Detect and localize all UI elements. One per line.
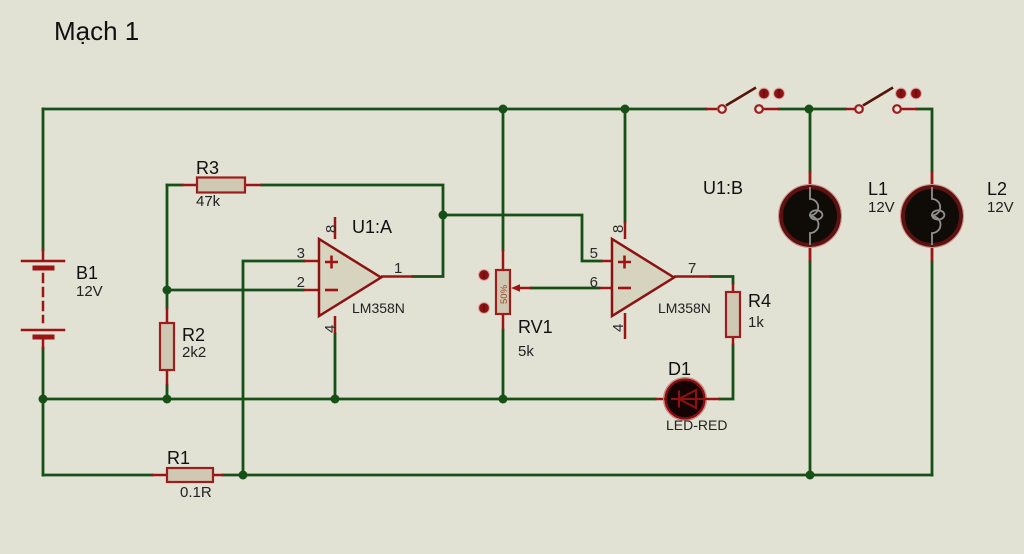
wire lamp L2 bottom — [931, 262, 934, 475]
potentiometer RV1 leads — [502, 250, 505, 330]
lamp L1 body — [781, 187, 839, 245]
wire R2/R3 vertical net — [166, 185, 169, 308]
wire R2 bottom — [166, 385, 169, 399]
svg-text:3: 3 — [297, 245, 305, 262]
wire mid rail (ground feedback) — [43, 398, 655, 401]
resistor R1 body — [167, 468, 213, 482]
op-amp U1:A plus mark — [325, 256, 338, 269]
svg-text:7: 7 — [688, 260, 696, 277]
resistor R3 body — [197, 178, 245, 193]
svg-text:2: 2 — [297, 274, 305, 291]
potentiometer RV1 wiper arrow — [520, 287, 532, 290]
node U1:B pin8 rail — [621, 105, 630, 114]
svg-text:R2: R2 — [182, 325, 205, 345]
node R2 top / pin2 — [163, 286, 172, 295]
wire U1:A pin2 net — [167, 289, 303, 292]
wire RV1 bottom — [502, 330, 505, 399]
switch SW2 left terminal — [855, 105, 863, 113]
switch SW1 lever — [726, 88, 756, 106]
lamp L1 filament — [810, 187, 822, 245]
op-amp U1:A pin stubs — [303, 217, 413, 334]
switch SW2 right pin stub — [901, 108, 917, 111]
battery B1 plate short 2 — [35, 335, 52, 340]
wire U1:B pin8 — [624, 109, 627, 222]
wire U1:A pin4 down — [334, 334, 337, 399]
svg-text:U1:B: U1:B — [703, 178, 743, 198]
node feedback — [439, 211, 448, 220]
battery B1 bottom lead — [42, 339, 45, 348]
node U1:A pin4 — [331, 395, 340, 404]
node lamp L1 bottom rail — [806, 471, 815, 480]
node lamp L1 rail — [805, 105, 814, 114]
svg-text:2k2: 2k2 — [182, 344, 206, 361]
battery B1 plate long 2 — [22, 329, 64, 332]
svg-text:8: 8 — [610, 225, 627, 233]
svg-text:47k: 47k — [196, 193, 221, 210]
lamp L2 filament — [932, 187, 944, 245]
resistor R2 body — [160, 323, 174, 370]
svg-text:L2: L2 — [987, 179, 1007, 199]
wire RV1 top — [502, 109, 505, 250]
wire bottom rail left of R1 — [43, 474, 152, 477]
svg-text:Mạch 1: Mạch 1 — [54, 16, 139, 46]
wire left rail lower — [42, 348, 45, 475]
svg-text:1: 1 — [394, 260, 402, 277]
potentiometer RV1 body — [496, 270, 510, 314]
switch SW2 toggle dot down — [896, 88, 907, 99]
svg-text:R3: R3 — [196, 158, 219, 178]
wire between switches — [779, 108, 845, 111]
op-amp U1:B minus mark — [618, 287, 631, 290]
svg-text:4: 4 — [610, 324, 627, 332]
svg-text:6: 6 — [590, 274, 598, 291]
op-amp U1:B plus mark — [618, 256, 631, 269]
switch SW1 toggle dot down — [759, 88, 770, 99]
switch SW1 left terminal — [718, 105, 726, 113]
svg-text:12V: 12V — [76, 283, 103, 300]
wire left rail upper — [42, 109, 45, 250]
switch SW2 left pin stub — [845, 108, 855, 111]
resistor R4 leads — [732, 283, 735, 345]
svg-text:0.1R: 0.1R — [180, 484, 212, 501]
wire LED right to R4 — [720, 345, 733, 399]
svg-text:5k: 5k — [518, 343, 534, 360]
node RV1 bottom — [499, 395, 508, 404]
potentiometer RV1 adjust dot down — [479, 303, 490, 314]
wire U1:A pin1 up to feedback node — [413, 215, 443, 277]
LED D1 diode symbol — [671, 390, 709, 408]
wire top rail — [43, 108, 706, 111]
svg-text:5: 5 — [590, 245, 598, 262]
resistor R2 leads — [166, 308, 169, 385]
switch SW1 right terminal — [755, 105, 763, 113]
svg-text:U1:A: U1:A — [352, 217, 392, 237]
switch SW2 toggle dot up — [911, 88, 922, 99]
wire lamp L2 top — [917, 109, 932, 171]
node junction dots — [39, 105, 815, 480]
wire lamp L1 bottom drop — [809, 262, 812, 475]
resistor R4 body — [726, 292, 740, 337]
svg-text:R1: R1 — [167, 448, 190, 468]
switch SW1 toggle dot up — [774, 88, 785, 99]
op-amp U1:A triangle — [319, 239, 381, 316]
svg-text:L1: L1 — [868, 179, 888, 199]
wire feedback node to U1:B pin5 — [443, 215, 601, 261]
svg-text:LED-RED: LED-RED — [666, 417, 727, 433]
svg-text:50%: 50% — [499, 284, 510, 304]
wire R3 left corner — [167, 184, 182, 187]
switch SW2 lever — [863, 88, 893, 106]
svg-text:R4: R4 — [748, 291, 771, 311]
wire RV1 wiper to pin6 — [531, 287, 599, 290]
switch SW1 right pin stub — [763, 108, 779, 111]
svg-text:LM358N: LM358N — [352, 300, 405, 316]
svg-text:1k: 1k — [748, 314, 764, 331]
svg-text:12V: 12V — [868, 199, 895, 216]
LED D1 body — [666, 380, 705, 419]
battery B1 top lead — [42, 250, 45, 259]
wire R3 right to feedback corner — [262, 185, 443, 215]
node R2 bottom — [163, 395, 172, 404]
battery B1 dashed middle — [42, 274, 45, 322]
node left rail / mid rail — [39, 395, 48, 404]
svg-text:B1: B1 — [76, 263, 98, 283]
op-amp U1:A minus mark — [325, 289, 338, 292]
battery B1 plate short 1 — [35, 266, 52, 271]
switch SW2 right terminal — [893, 105, 901, 113]
svg-text:RV1: RV1 — [518, 317, 553, 337]
wire bottom rail right of R1 — [223, 474, 932, 477]
wire U1:A pin3 net — [243, 261, 304, 475]
battery B1 plate long 1 — [22, 260, 64, 263]
lamp L2 body — [903, 187, 961, 245]
op-amp U1:B pin stubs — [599, 222, 711, 339]
svg-text:4: 4 — [322, 325, 339, 333]
op-amp U1:B triangle — [612, 239, 674, 316]
lamp L2 leads — [931, 171, 934, 262]
resistor R3 leads — [182, 184, 262, 187]
node R1 right / pin3 — [239, 471, 248, 480]
svg-text:D1: D1 — [668, 359, 691, 379]
LED D1 leads — [655, 398, 720, 401]
node RV1 top rail — [499, 105, 508, 114]
resistor R1 leads — [152, 474, 223, 477]
svg-text:LM358N: LM358N — [658, 300, 711, 316]
svg-text:8: 8 — [323, 225, 340, 233]
wire R4 top to U1:B pin7 — [711, 277, 733, 284]
lamp L1 leads — [809, 171, 812, 262]
potentiometer RV1 adjust dot up — [479, 270, 490, 281]
wire lamp L1 top drop — [809, 109, 812, 171]
svg-text:12V: 12V — [987, 199, 1014, 216]
switch SW1 left pin stub — [706, 108, 717, 111]
